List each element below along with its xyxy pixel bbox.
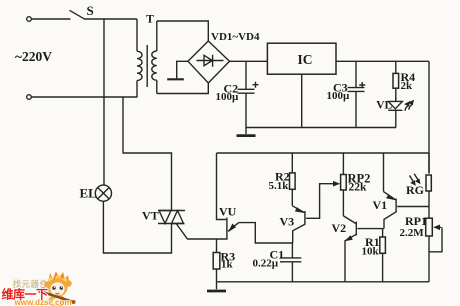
transformer secondary winding <box>152 21 157 94</box>
resistor R3 wire top <box>216 239 218 253</box>
svg-text:VL: VL <box>376 99 392 111</box>
transformer primary winding <box>137 19 142 97</box>
V2 base wire <box>357 228 383 230</box>
RP1 wiper <box>429 227 442 252</box>
svg-text:2.2M: 2.2M <box>400 227 425 239</box>
transistor V1 bar <box>395 199 397 213</box>
potentiometer RP2 wire top <box>342 153 344 175</box>
node EL feed <box>103 19 105 185</box>
transistor VU bar <box>226 218 228 235</box>
terminal bottom-left <box>27 95 32 100</box>
capacitor C1 <box>280 243 301 282</box>
svg-text:100µ: 100µ <box>327 90 351 102</box>
wire R3 to bottom rail <box>216 269 218 282</box>
capacitor C2 <box>238 89 255 127</box>
wire IC output rail <box>336 60 429 62</box>
transistor VU emitter <box>228 223 239 232</box>
svg-text:V2: V2 <box>332 221 347 235</box>
capacitor C3 <box>348 88 365 128</box>
resistor R1 wire top <box>382 229 384 237</box>
svg-text:5.1k: 5.1k <box>269 180 290 192</box>
bridge internal diode <box>197 55 224 67</box>
ground at bridge left vertex <box>177 61 188 78</box>
svg-text:0.22µ: 0.22µ <box>253 258 279 270</box>
transistor V3 emitter diagonal <box>292 206 304 213</box>
terminal top-left <box>27 17 32 22</box>
node C3 top <box>355 61 357 87</box>
transistor V2 bar <box>355 222 357 236</box>
svg-text:VT: VT <box>142 209 159 223</box>
LED VL <box>388 97 402 128</box>
C3 plus sign <box>359 82 365 88</box>
RP2 wiper arrowhead <box>333 181 340 187</box>
transistor V1 emitter diagonal <box>384 192 396 200</box>
V1 emitter arrowhead <box>386 194 396 200</box>
svg-text:www.dzsc.com: www.dzsc.com <box>14 298 72 306</box>
bridge rectifier VD1-VD4 diamond <box>188 41 230 83</box>
wire EL to triac MT1 <box>103 201 171 253</box>
wire RP2 to V2 collector <box>342 190 344 216</box>
LED arrowheads <box>404 100 414 107</box>
LED VL light arrows <box>405 104 412 110</box>
transistor V1 collector wire <box>383 153 385 192</box>
resistor R4 <box>393 73 399 88</box>
resistor R1 <box>380 237 386 253</box>
svg-text:RP1: RP1 <box>405 214 427 228</box>
ground thick bar bottom <box>207 290 226 293</box>
resistor R2 <box>290 173 296 189</box>
svg-text:2k: 2k <box>401 80 414 92</box>
ground thick bar bridge <box>167 78 184 80</box>
wire VU emitter to C1 node <box>239 223 293 243</box>
svg-text:1k: 1k <box>221 259 234 271</box>
switch S blade <box>70 10 86 19</box>
svg-text:EL: EL <box>80 185 98 200</box>
VU emitter arrowhead <box>228 224 236 233</box>
ground rail <box>246 127 396 129</box>
watermark mascot <box>38 271 75 306</box>
svg-text:V3: V3 <box>280 214 295 228</box>
wire secondary top to bridge <box>157 21 209 42</box>
IC ground pin wire <box>301 74 303 127</box>
svg-text:T: T <box>146 11 154 25</box>
resistor R2 wire top <box>291 153 293 173</box>
wire R1 to bottom rail <box>382 253 384 281</box>
resistor R3 <box>213 253 220 270</box>
wire bridge output to IC <box>230 60 268 62</box>
C2 plus sign <box>253 82 259 88</box>
V2 emitter arrowhead <box>345 235 353 241</box>
lamp EL cross <box>98 188 109 199</box>
RP1 wiper arrowhead <box>433 225 440 231</box>
RG arrowheads <box>410 178 420 185</box>
potentiometer RP1 <box>426 218 433 236</box>
svg-text:VU: VU <box>219 205 237 219</box>
svg-text:10k: 10k <box>362 245 380 257</box>
ground symbol below C2 <box>245 128 247 135</box>
svg-text:100µ: 100µ <box>216 91 240 103</box>
VU bottom lead <box>217 234 227 239</box>
wire live to switch <box>32 18 71 20</box>
transistor V1 lower lead <box>384 212 396 229</box>
triac triangles <box>159 211 184 224</box>
wire neutral to primary <box>32 96 138 98</box>
photoresistor RG <box>426 175 431 191</box>
transformer core <box>146 45 148 87</box>
V3 emitter arrowhead <box>295 207 305 213</box>
svg-text:IC: IC <box>298 52 313 67</box>
lamp EL <box>95 185 111 201</box>
ground symbol bottom rail <box>216 282 218 290</box>
IC U1 box <box>267 43 336 74</box>
wire R4 to VL <box>395 88 397 101</box>
potentiometer RP2 <box>341 175 347 191</box>
bottom rail <box>217 281 430 283</box>
svg-text:S: S <box>87 3 94 18</box>
supply right edge wire <box>428 61 430 173</box>
V1 base wire <box>397 206 429 208</box>
bridge diode triangle <box>204 55 212 65</box>
control supply rail <box>217 152 430 154</box>
svg-text:V1: V1 <box>373 198 388 212</box>
wire secondary bottom to bridge <box>157 83 209 94</box>
wire neutral branch to triac MT2 <box>123 97 172 211</box>
transistor VU top lead <box>217 153 227 220</box>
wire R2 to V3 <box>291 189 293 206</box>
transistor V2 collector diagonal <box>343 216 355 224</box>
switch S wire to transformer <box>85 18 138 20</box>
resistor R4 wire top <box>395 61 397 73</box>
triac gate wire <box>177 224 217 239</box>
triac VT <box>158 211 185 224</box>
svg-text:RG: RG <box>406 183 424 197</box>
svg-text:VD1~VD4: VD1~VD4 <box>211 31 260 43</box>
svg-text:22k: 22k <box>349 182 368 194</box>
transistor V3 collector <box>293 224 305 243</box>
transistor V2 emitter <box>345 234 356 281</box>
photoresistor RG wire top <box>428 153 430 173</box>
node C2 top <box>245 61 247 89</box>
V3 base wire to RP2 wiper <box>306 184 334 219</box>
ground thick bar C2 <box>237 134 256 137</box>
wire RG to node <box>428 191 430 218</box>
svg-text:~220V: ~220V <box>15 49 52 64</box>
transistor V3 bar <box>304 211 306 225</box>
wire RP1 to bottom rail <box>428 236 430 282</box>
RG light arrows <box>410 174 419 182</box>
